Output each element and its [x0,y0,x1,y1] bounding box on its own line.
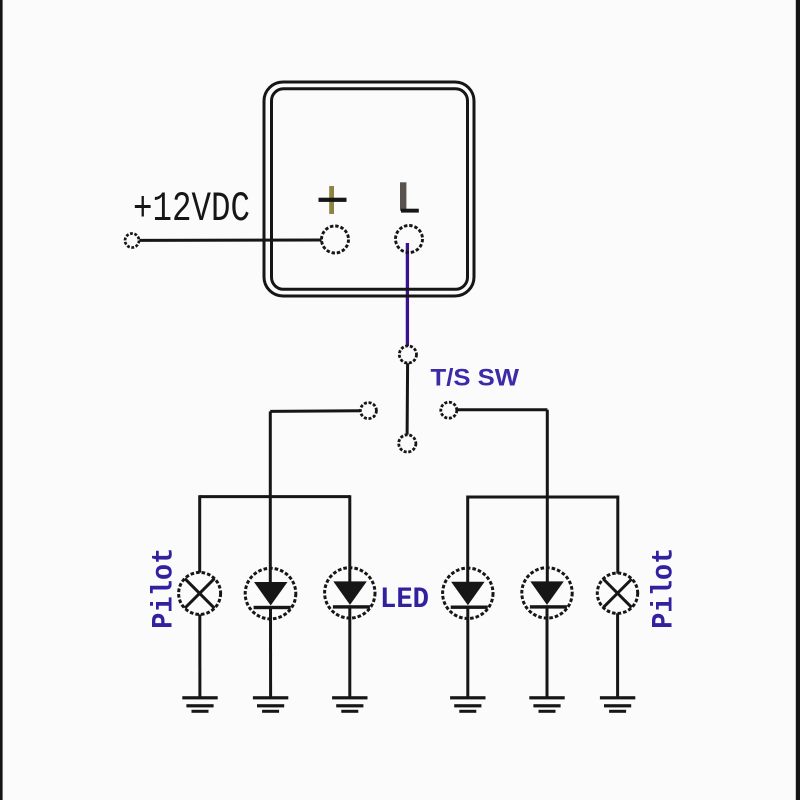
pilot lamp P2 cross stroke 2 [603,579,631,607]
wire LED D2 to ground [348,605,351,697]
wire LED D3 to ground [466,606,469,697]
ground symbol under D3 [450,696,485,713]
L terminal label (black horizontal stroke) [401,209,419,213]
wire drop to LED D3 [466,496,469,583]
terminal pad + (circle) [322,226,349,253]
flasher relay box U1 (inner outline) [272,89,468,289]
wire pilot P1 to ground [198,614,201,697]
wire from left throw contact going left [270,409,360,413]
plus terminal label (black horizontal stroke) [319,198,347,202]
wire pilot P2 to ground [616,613,619,697]
LED D4 (circle) [522,568,572,618]
right image border strip [796,0,800,800]
L terminal label (gray vertical stroke) [400,182,406,211]
pilot lamp P1 (circle) [179,572,221,614]
wire LED D4 to ground [546,605,549,697]
left bus wire [200,495,350,498]
LED D3 (circle) [443,568,493,618]
wire drop to pilot lamp P1 [198,495,201,572]
plus terminal label (olive vertical stroke) [329,186,334,214]
svg-text:Pilot: Pilot [147,548,181,629]
LED D4 cathode bar [530,605,567,608]
LED D2 (circle) [325,568,375,618]
ground symbol under D2 [332,696,367,713]
svg-text:T/S SW: T/S SW [431,365,520,392]
pilot lamp P2 cross stroke 1 [603,579,631,607]
wire right feed down to right bus [546,410,549,582]
wire from +12VDC node to + terminal [139,239,321,242]
terminal pad L (circle) [396,226,423,253]
LED D2 triangle [333,581,367,605]
ground symbol under P1 [182,696,217,713]
ground symbol under D1 [253,696,288,713]
wire LED D1 to ground [269,606,272,697]
right bus wire [467,496,618,499]
wire left feed down to left bus [269,411,272,582]
switch SW1 pole end (bottom circle) [399,435,416,452]
LED D2 cathode bar [333,605,370,608]
LED D1 cathode bar [254,606,291,609]
ground symbol under P2 [600,696,635,713]
LED D1 (circle) [245,568,296,619]
LED D4 triangle [530,581,564,605]
LED D1 triangle [254,582,288,606]
left image border strip [0,0,3,800]
pilot lamp P2 (circle) [597,573,637,613]
wire drop to LED D2 [348,495,351,582]
LED D3 triangle [451,582,485,606]
pilot lamp P1 cross stroke 1 [185,579,215,609]
switch SW1 input contact (top circle) [399,346,416,363]
pilot lamp P1 cross stroke 2 [185,579,215,609]
flasher relay box U1 (outer outline) [264,82,474,296]
switch SW1 left throw contact [360,403,376,419]
switch SW1 right throw contact [441,402,457,418]
wire drop to pilot lamp P2 [616,496,619,574]
switch SW1 lever [406,363,410,434]
wire from right throw contact going right [457,408,548,411]
svg-text:Pilot: Pilot [647,548,681,629]
svg-text:LED: LED [380,583,429,617]
svg-text:+12VDC: +12VDC [133,186,250,233]
LED D3 cathode bar [451,606,488,609]
+12VDC input node (open circle) [125,234,139,248]
wire (purple) from L terminal down to switch [406,243,409,346]
ground symbol under D4 [529,696,564,713]
